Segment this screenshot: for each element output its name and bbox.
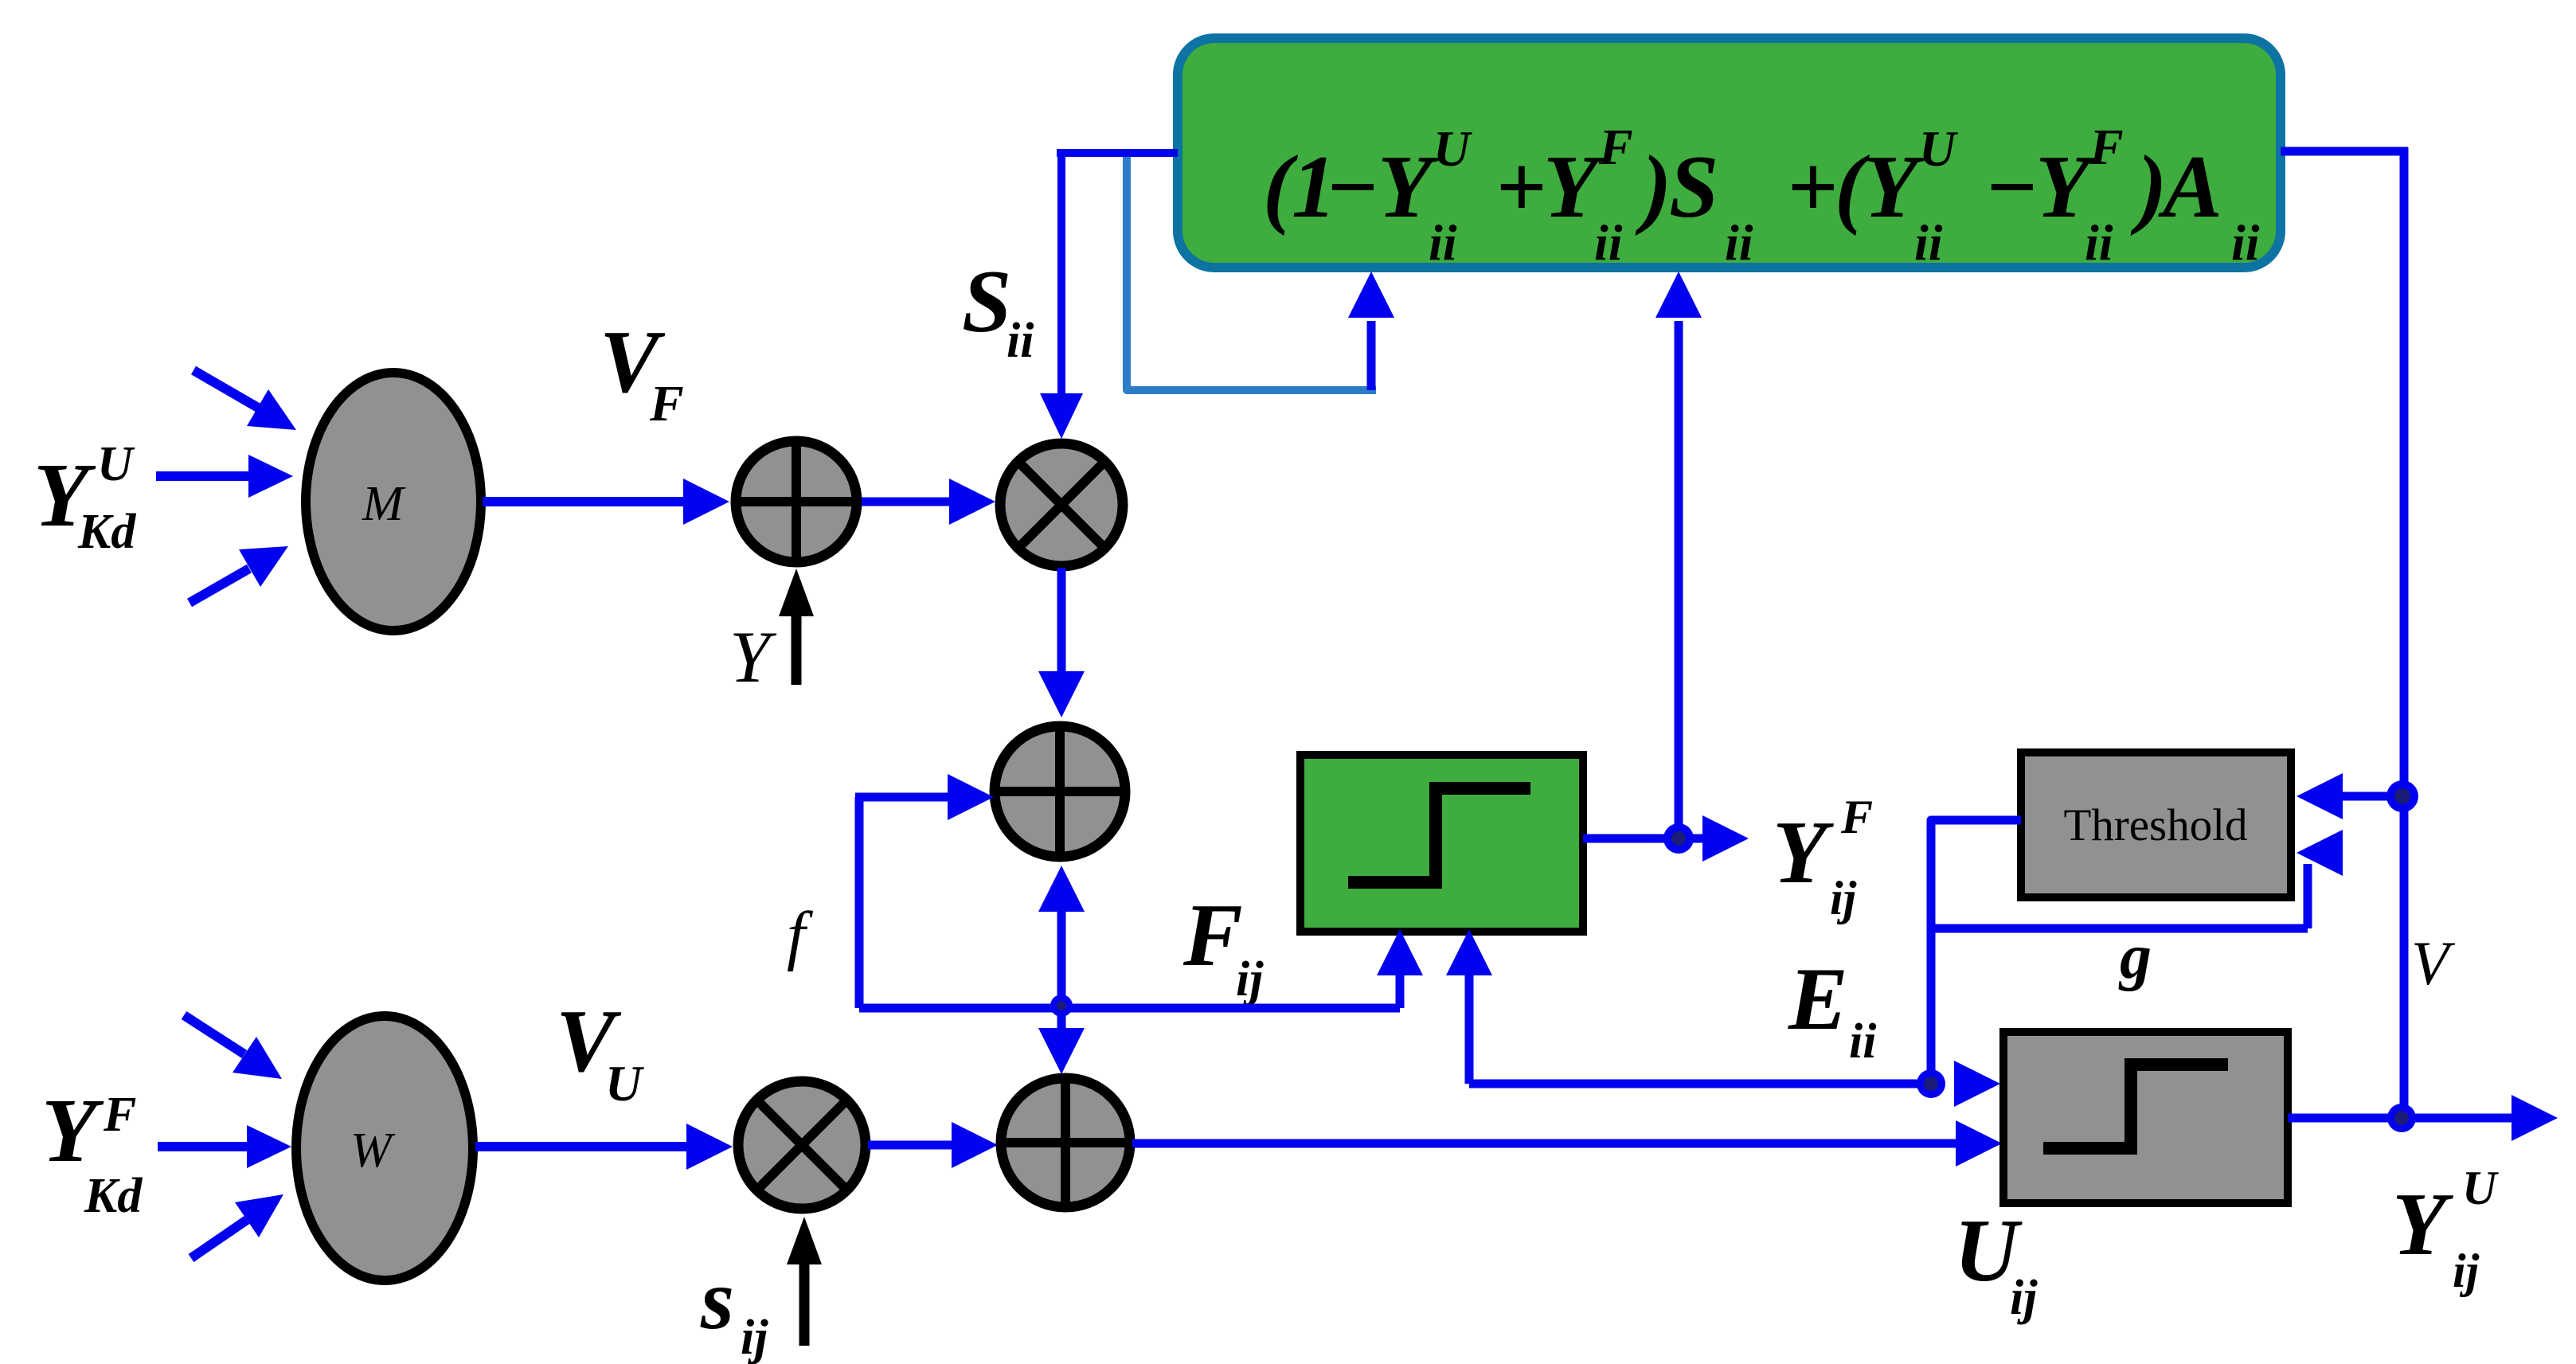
- svg-text:U: U: [605, 1055, 644, 1112]
- wire V vertical: [2400, 147, 2409, 1118]
- svg-text:+: +: [1787, 138, 1838, 236]
- wire f feedback vertical: [855, 797, 864, 1008]
- formula (1-Yii^U+Yii^F)Sii+(Yii^U-Yii^F)Aii: [1263, 119, 2260, 271]
- svg-text:U: U: [1433, 120, 1472, 177]
- arrow input diag lower into W: [191, 1220, 247, 1258]
- wire adder1 to multiplier1: [862, 498, 949, 506]
- label s_ij: [700, 1253, 768, 1364]
- wire f feedback horizontal: [859, 1004, 1400, 1013]
- svg-text:g: g: [2118, 922, 2152, 992]
- step glyph in F box: [1348, 788, 1530, 882]
- wire adder3 output long line to U box: [1132, 1139, 1959, 1148]
- arrow into Threshold right upper: [2341, 792, 2404, 801]
- svg-text:ij: ij: [1830, 872, 1857, 924]
- arrow up into F box from f line: [1396, 973, 1405, 1008]
- arrow f into adder2 left: [855, 793, 948, 802]
- adder2 circle-plus: [995, 726, 1125, 857]
- wire S vertical into multiplier: [1057, 149, 1065, 395]
- input Y_Kd^F label: [41, 1080, 143, 1223]
- svg-text:s: s: [700, 1253, 734, 1347]
- svg-text:ij: ij: [741, 1311, 768, 1364]
- wire U box output: [2288, 1114, 2512, 1123]
- wire g feedback: [1931, 924, 2308, 933]
- svg-text:Y: Y: [2392, 1175, 2453, 1274]
- svg-text:ii: ii: [2231, 214, 2260, 271]
- multiplier2 circle-X: [738, 1081, 866, 1209]
- multiplier1 circle-X: [1000, 444, 1123, 566]
- arrow input diag upper into W: [184, 1015, 244, 1054]
- svg-text:Kd: Kd: [84, 1169, 143, 1223]
- svg-text:M: M: [362, 477, 406, 531]
- label Y_ij^U: [2392, 1162, 2499, 1297]
- svg-text:ii: ii: [2085, 214, 2113, 271]
- adder1 circle-plus: [736, 441, 857, 562]
- svg-text:ij: ij: [2453, 1245, 2480, 1297]
- black arrow Y into adder1: [792, 615, 802, 685]
- junction dot F output: [1663, 823, 1694, 854]
- junction dot U output: [2387, 1104, 2416, 1132]
- arrowhead down into adder3 top: [1038, 1028, 1085, 1074]
- svg-text:F: F: [1598, 119, 1633, 175]
- svg-text:Y: Y: [729, 616, 777, 698]
- label F_ij: [1182, 886, 1264, 1006]
- svg-text:ii: ii: [1594, 214, 1623, 271]
- block U step-function box: [2003, 1032, 2288, 1203]
- wire W output to multiplier2: [475, 1142, 686, 1151]
- adder3 circle-plus: [1001, 1078, 1130, 1207]
- svg-text:F: F: [1840, 791, 1873, 843]
- block F step-function box: [1300, 755, 1583, 932]
- wire formula box right to V column: [2281, 147, 2408, 156]
- arrowhead g into Threshold right lower: [2297, 830, 2343, 876]
- svg-text:F: F: [2089, 119, 2124, 175]
- svg-text:Kd: Kd: [77, 505, 136, 559]
- black arrow s_ij into multiplier2: [799, 1263, 810, 1346]
- arrowhead up into adder2 bottom: [1038, 866, 1085, 912]
- svg-text:Threshold: Threshold: [2063, 800, 2247, 850]
- svg-text:ij: ij: [2010, 1271, 2038, 1325]
- svg-text:ij: ij: [1236, 952, 1264, 1006]
- input Y_Kd^U label: [33, 437, 136, 559]
- wire between adder2 and adder3: [1057, 908, 1066, 1031]
- svg-text:S: S: [1669, 138, 1718, 236]
- svg-text:U: U: [97, 437, 135, 491]
- ellipse M: [306, 373, 481, 631]
- svg-text:U: U: [1919, 120, 1958, 177]
- arrow input diag upper into M: [193, 370, 258, 408]
- svg-text:U: U: [2462, 1162, 2499, 1214]
- label V_F: [600, 313, 684, 432]
- arrowhead output Y_ij^U: [2512, 1095, 2558, 1141]
- junction dot E line: [1917, 1069, 1945, 1098]
- svg-text:Y: Y: [41, 1080, 104, 1181]
- arrow up into formula box bottom left: [1367, 321, 1376, 390]
- junction dot f: [1050, 995, 1073, 1017]
- label U_ij: [1954, 1202, 2038, 1325]
- arrowhead Y_ij^F: [1702, 815, 1749, 862]
- block linking-equation box: [1178, 38, 2281, 268]
- svg-text:+: +: [1495, 138, 1546, 236]
- block Threshold box: [2021, 752, 2291, 897]
- wire up from F output junction to formula box: [1675, 321, 1683, 838]
- step glyph in U box: [2043, 1065, 2228, 1148]
- wire multiplier2 to adder3: [868, 1141, 952, 1150]
- wire Threshold output left and down: [1931, 820, 2021, 1084]
- svg-text:−: −: [1325, 138, 1379, 236]
- arrowhead E into U box upper input: [1954, 1061, 2000, 1107]
- svg-text:S: S: [962, 252, 1011, 351]
- svg-text:ii: ii: [1725, 214, 1753, 271]
- wire multiplier1 down to adder2: [1057, 568, 1066, 674]
- svg-text:F: F: [103, 1088, 136, 1142]
- svg-text:−: −: [1984, 138, 2039, 236]
- svg-text:ii: ii: [1007, 314, 1034, 368]
- svg-text:F: F: [649, 375, 684, 432]
- svg-text:F: F: [1182, 886, 1243, 985]
- svg-text:ii: ii: [1849, 1014, 1876, 1069]
- wire E horizontal: [1469, 1080, 1931, 1088]
- label V_U: [556, 992, 644, 1112]
- junction dot V-threshold: [2386, 780, 2418, 812]
- svg-text:Y: Y: [1773, 803, 1834, 902]
- node S_ii label: [962, 252, 1034, 368]
- svg-text:E: E: [1788, 950, 1848, 1049]
- svg-text:ii: ii: [1429, 214, 1457, 271]
- arrow input horizontal into M: [156, 471, 248, 481]
- arrow input horizontal into W: [158, 1142, 247, 1151]
- arrow input diag lower into M: [190, 569, 249, 603]
- svg-text:ii: ii: [1914, 214, 1943, 271]
- arrow up into F box from E line: [1465, 973, 1474, 1084]
- label Y_ij^F: [1773, 791, 1873, 924]
- svg-text:W: W: [350, 1124, 396, 1178]
- wire from S line to formula box left: [1057, 149, 1178, 157]
- svg-text:V: V: [2411, 928, 2456, 998]
- wire F box output: [1583, 834, 1704, 843]
- ellipse W: [296, 1016, 473, 1280]
- wire steel-blue feedback loop: [1127, 157, 1376, 390]
- svg-text:A: A: [2158, 138, 2222, 236]
- label E_ii: [1788, 950, 1876, 1069]
- wire M output to adder1: [483, 497, 683, 506]
